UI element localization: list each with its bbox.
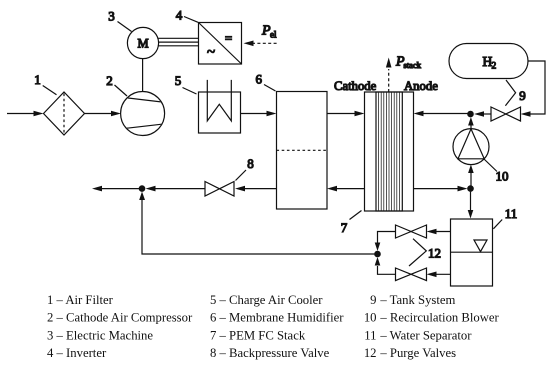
svg-text:4: 4 <box>176 8 183 23</box>
node: exhaust junction <box>139 185 146 192</box>
svg-text:3: 3 <box>108 9 115 24</box>
label 1 with leader <box>34 72 56 95</box>
svg-text:2: 2 <box>106 73 113 88</box>
wire: filter to compressor <box>85 111 122 117</box>
PEM FC stack 7 (box with cell plates) <box>365 92 414 211</box>
charge air cooler 5 (box with W coil) <box>199 80 241 133</box>
svg-text:1 – Air Filter: 1 – Air Filter <box>47 293 114 307</box>
water separator 11 (box with level indicator) <box>451 219 493 286</box>
recirculation blower 10 (circle with triangle) <box>453 129 489 165</box>
label 2 with leader <box>106 73 127 96</box>
wire: purge node to exhaust node (long corner) <box>139 192 374 255</box>
wire: valve 12a to purge node (corner down) <box>375 232 396 252</box>
svg-text:11: 11 <box>505 206 518 221</box>
motor M 3 (circle) <box>127 27 158 58</box>
svg-text:el: el <box>270 30 277 40</box>
wire: blower outlet up to node <box>468 117 474 129</box>
label 12 with chevron leader <box>409 239 441 266</box>
wire: tank to pressure valve (corner) <box>521 61 546 117</box>
wire: humidifier to stack cathode in <box>327 111 365 117</box>
membrane humidifier 6 (box with dashed membrane) <box>277 92 328 210</box>
svg-text:stack: stack <box>404 60 422 70</box>
svg-text:– Tank System: – Tank System <box>379 293 455 307</box>
label 10 with leader <box>484 159 509 184</box>
svg-text:– Recirculation Blower: – Recirculation Blower <box>379 311 499 325</box>
purge valve 12a (bowtie) <box>396 225 427 238</box>
tank valve 9 (bowtie) <box>491 107 521 121</box>
label 7 with leader <box>341 211 362 236</box>
backpressure valve 8 (bowtie) <box>205 182 234 197</box>
node: anode outlet junction <box>467 185 474 192</box>
svg-text:10: 10 <box>496 169 509 184</box>
wire: separator to lower purge valve <box>427 272 451 278</box>
label 4 with leader <box>176 8 198 23</box>
svg-text:– Water Separator: – Water Separator <box>379 328 472 342</box>
purge valve 12b (bowtie) <box>396 268 427 281</box>
svg-text:5: 5 <box>175 73 182 88</box>
svg-text:M: M <box>137 37 148 51</box>
legend <box>47 293 500 360</box>
svg-text:7 – PEM FC Stack: 7 – PEM FC Stack <box>210 328 306 342</box>
svg-text:10: 10 <box>364 311 377 325</box>
svg-text:11: 11 <box>364 328 376 342</box>
svg-text:=: = <box>225 31 232 46</box>
wire: stack cathode out to humidifier <box>327 186 365 192</box>
svg-text:6: 6 <box>256 72 263 87</box>
svg-text:8: 8 <box>247 156 254 171</box>
svg-text:Anode: Anode <box>404 79 438 93</box>
wire: stack anode out to node <box>414 186 468 192</box>
node: anode inlet junction <box>467 111 474 118</box>
wire: separator to upper purge valve <box>427 229 451 235</box>
label 11 with leader <box>493 206 517 229</box>
compressor 2 (circle with two chords) <box>118 92 166 136</box>
wire: 3-phase lines motor to inverter <box>158 38 199 46</box>
label 3 with leader <box>108 9 131 32</box>
wire: air inlet into filter <box>7 111 44 117</box>
svg-text:4 – Inverter: 4 – Inverter <box>47 346 107 360</box>
svg-text:9: 9 <box>370 293 376 307</box>
svg-text:1: 1 <box>34 72 41 87</box>
node: purge junction <box>374 251 381 258</box>
wire: node down to water separator <box>468 192 474 219</box>
label 6 with leader <box>256 72 276 92</box>
svg-text:5 – Charge Air Cooler: 5 – Charge Air Cooler <box>210 293 323 307</box>
label 9 with chevron leader <box>505 80 525 106</box>
wire: humidifier to backpressure valve <box>235 186 277 192</box>
air filter 1 (diamond with dashed median) <box>44 92 85 135</box>
wire: valve 8 to exhaust node <box>146 186 206 192</box>
P_stack output (dashed line + arrow + label) <box>386 55 422 93</box>
inverter U4 (box with diagonal, ~ and =) <box>199 23 242 65</box>
svg-text:2: 2 <box>492 62 497 72</box>
svg-text:2 – Cathode Air Compressor: 2 – Cathode Air Compressor <box>47 311 193 325</box>
wire: compressor shaft to motor <box>142 59 144 92</box>
wire: node to stack anode in <box>414 111 468 117</box>
svg-text:7: 7 <box>341 220 348 235</box>
svg-text:– Purge Valves: – Purge Valves <box>379 346 456 360</box>
wire: exhaust outlet arrow <box>92 186 142 192</box>
label 8 with leader <box>236 156 254 181</box>
label 5 with leader <box>175 73 197 94</box>
svg-text:9: 9 <box>519 88 526 103</box>
wire: valve 9 to anode-in node <box>474 111 491 117</box>
wire: cooler to humidifier <box>241 111 277 117</box>
wire: valve 12b to purge node (corner up) <box>375 257 396 274</box>
svg-text:12: 12 <box>428 246 441 261</box>
H2 tank 9 (capsule) <box>449 44 528 79</box>
wire: node up to blower inlet <box>468 165 474 186</box>
svg-text:12: 12 <box>364 346 377 360</box>
P_el output (dashed arrow + label) <box>244 24 278 47</box>
svg-text:6 – Membrane Humidifier: 6 – Membrane Humidifier <box>210 311 344 325</box>
svg-text:Cathode: Cathode <box>334 79 377 93</box>
svg-text:~: ~ <box>207 45 215 61</box>
svg-text:3 – Electric Machine: 3 – Electric Machine <box>47 328 153 342</box>
svg-text:8 – Backpressure Valve: 8 – Backpressure Valve <box>210 346 330 360</box>
